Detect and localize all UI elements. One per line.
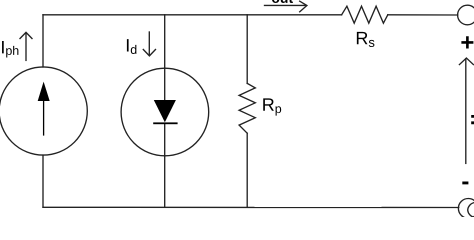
arrow Iph label — [20, 32, 32, 60]
current source Iph circle — [0, 67, 87, 155]
resistor Rs zigzag — [342, 6, 388, 23]
label V cut at edge — [471, 115, 474, 118]
wire left branch lower — [42, 155, 44, 207]
svg-text:Id: Id — [125, 36, 137, 57]
arrow Iout — [265, 1, 307, 12]
svg-text:+: + — [460, 29, 474, 56]
wire left branch upper — [42, 15, 44, 67]
diode triangle — [154, 100, 176, 122]
wire Rp branch lower — [246, 133, 248, 207]
wire diode branch lower — [164, 123, 166, 207]
wire Rp branch upper — [246, 15, 248, 84]
current source arrowhead Iph — [38, 82, 50, 101]
svg-text:Iph: Iph — [0, 37, 19, 58]
svg-text:Rp: Rp — [262, 95, 282, 116]
wire diode branch upper — [164, 15, 166, 100]
svg-text:-: - — [461, 168, 469, 195]
wire bottom rail — [43, 206, 459, 208]
wire top rail left segment — [43, 14, 342, 16]
arrow Id label — [143, 32, 155, 56]
wire top rail right segment — [388, 14, 458, 16]
svg-text:out: out — [271, 0, 293, 6]
terminal positive circle — [458, 5, 474, 25]
arrow V voltage — [459, 58, 473, 163]
terminal negative circle — [458, 199, 474, 219]
terminal negative inner arc — [468, 203, 474, 218]
diode cathode bar — [153, 122, 177, 124]
svg-text:Rs: Rs — [355, 28, 375, 50]
diode circle — [121, 68, 209, 156]
resistor Rp zigzag — [239, 83, 255, 133]
current source arrow shaft Iph — [43, 99, 44, 136]
